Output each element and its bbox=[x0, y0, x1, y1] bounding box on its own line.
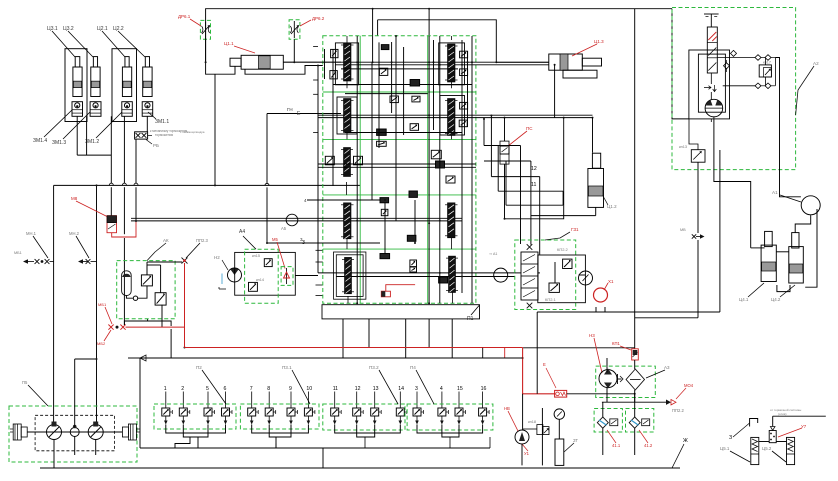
wire PS bottom bbox=[504, 164, 506, 219]
wire Ts1.1 bottom drain bbox=[245, 66, 323, 75]
hydraulic lock ZM1.3 bbox=[90, 102, 101, 117]
section frame row2L bbox=[337, 97, 357, 134]
svg-text:П3.1: П3.1 bbox=[282, 365, 292, 370]
wire jog y155 bbox=[77, 154, 111, 156]
svg-text:А3: А3 bbox=[664, 365, 670, 370]
black wire coupler frame bbox=[124, 321, 171, 326]
drain collector line bbox=[602, 401, 666, 403]
double arrow PP2.2 bbox=[666, 400, 671, 405]
wire N3 verticals bbox=[634, 360, 636, 369]
valve MOZ dark2 bbox=[377, 141, 387, 146]
wire drain into tank bbox=[634, 394, 636, 402]
svg-text:12: 12 bbox=[531, 166, 537, 172]
motor M1 bbox=[47, 425, 62, 440]
wire Ts1.1 left port bbox=[206, 38, 235, 74]
bottom line bbox=[40, 467, 680, 469]
section frame row2R bbox=[440, 96, 465, 136]
port ticks left edge bbox=[313, 46, 318, 48]
wire right end vertical bbox=[774, 58, 776, 86]
pilot valve 8 bbox=[268, 392, 270, 409]
valve spool 5L bbox=[345, 257, 352, 293]
filter unit 41.2 green box bbox=[626, 409, 654, 433]
element U7 bbox=[769, 431, 776, 443]
block KP2 green box bbox=[515, 240, 576, 310]
block AK green box bbox=[117, 261, 175, 319]
frame right vertical x698 bbox=[697, 162, 699, 233]
check ak bbox=[133, 296, 137, 300]
spool center extensions bbox=[346, 36, 348, 43]
svg-text:4: 4 bbox=[440, 386, 443, 392]
wire pilot 11 12 bbox=[505, 130, 564, 219]
port circle A4 bbox=[494, 268, 508, 282]
block KP2 outer rect bbox=[538, 255, 586, 303]
svg-text:ПП2.3: ПП2.3 bbox=[196, 238, 209, 243]
block N2 rect bbox=[235, 252, 296, 295]
work line row1b bbox=[335, 64, 548, 66]
wire x537 bbox=[536, 312, 538, 394]
link motors horizontal bbox=[75, 358, 97, 360]
drop to tank line bbox=[322, 448, 324, 468]
wire AK to coupler bbox=[147, 261, 182, 263]
relief valve d2 bbox=[381, 209, 388, 215]
svg-text:Ж: Ж bbox=[683, 438, 688, 444]
wire A1 loop bbox=[795, 215, 811, 233]
svg-text:6: 6 bbox=[224, 386, 227, 392]
svg-text:МО4: МО4 bbox=[684, 383, 694, 388]
outer frame A2 bbox=[689, 50, 730, 119]
red port X1 bbox=[594, 288, 608, 302]
drain pump M3 bbox=[70, 428, 79, 437]
svg-text:РБ: РБ bbox=[153, 143, 159, 148]
work line row4b bbox=[336, 276, 515, 278]
pilot valve 9 bbox=[290, 392, 292, 409]
wire drain Ts1.1 x267 bbox=[266, 114, 268, 184]
solenoid valve KE bbox=[107, 216, 117, 233]
green divider h4 bbox=[323, 248, 476, 250]
pilot valve 1 bbox=[165, 392, 167, 409]
wire 41.2 bbox=[634, 402, 636, 417]
wire second top bbox=[378, 20, 497, 63]
block vertical h bbox=[414, 200, 416, 243]
wire PS top bbox=[504, 118, 506, 142]
block vertical f bbox=[461, 40, 463, 293]
svg-text:Ц1.1: Ц1.1 bbox=[224, 41, 234, 46]
block vertical i bbox=[384, 200, 386, 255]
wire Ts4 rods bbox=[776, 251, 789, 253]
svg-text:ДР6.2: ДР6.2 bbox=[312, 16, 325, 21]
pilot valve 2 bbox=[182, 392, 184, 409]
svg-text:1: 1 bbox=[164, 386, 167, 392]
valve KP3 dark bbox=[410, 80, 420, 87]
wire frame group 1 bbox=[65, 49, 87, 122]
wire Ts5 bus bbox=[759, 441, 769, 443]
green divider h1 bbox=[323, 91, 476, 93]
relief valve c2 bbox=[412, 96, 420, 102]
wire N2 out bbox=[295, 275, 318, 277]
drop x372.6 bbox=[372, 9, 374, 62]
valve d3 dark bbox=[380, 254, 390, 259]
work line row3b bbox=[131, 220, 462, 222]
work line row1a bbox=[283, 61, 549, 63]
pilot valve 15 bbox=[458, 392, 460, 409]
red wire from PP2.3 bbox=[184, 263, 186, 348]
valve sq right of 3L bbox=[354, 156, 363, 165]
valve spool 2L bbox=[344, 99, 352, 133]
pilot valve 10 bbox=[307, 392, 309, 409]
block vertical d bbox=[403, 47, 405, 135]
valve spool 1L bbox=[344, 43, 352, 81]
wire gauge stem bbox=[558, 419, 560, 439]
check pair bottom bbox=[755, 83, 761, 89]
pump A2 circle bbox=[705, 99, 723, 117]
red wire MB2 to bus bbox=[126, 326, 185, 328]
wire pump drain to Ts4 bbox=[714, 119, 751, 248]
group P2 green box bbox=[154, 404, 236, 429]
wire hand pump bbox=[522, 394, 524, 430]
throttle DR6.2 bbox=[289, 20, 300, 40]
wire AK bottom drop bbox=[147, 319, 149, 321]
inner frame A2 bbox=[698, 54, 725, 112]
svg-text:2: 2 bbox=[181, 386, 184, 392]
svg-text:7: 7 bbox=[250, 386, 253, 392]
black drop x140 bbox=[139, 358, 141, 448]
wire lock3 down long bbox=[123, 116, 125, 183]
cylinder Ts1.1 horizontal bbox=[241, 55, 283, 69]
supply vertical x672 bbox=[672, 9, 689, 119]
motor M2 bbox=[88, 425, 103, 440]
red couplers MB2 bbox=[108, 325, 113, 330]
valve PS bbox=[500, 141, 509, 164]
drop x429 bbox=[428, 9, 430, 36]
manifold drop c bbox=[451, 319, 453, 358]
cylinder Ts5.1 bbox=[751, 437, 759, 464]
svg-text:КП1: КП1 bbox=[612, 341, 620, 346]
red bus drop2 bbox=[523, 348, 555, 394]
svg-text:У1: У1 bbox=[524, 451, 530, 456]
valve ak2 bbox=[155, 293, 166, 305]
svg-text:15: 15 bbox=[457, 386, 463, 392]
pump N2 circle bbox=[228, 268, 242, 282]
pilot valve 3 bbox=[416, 392, 418, 409]
work line row2.5a bbox=[318, 163, 476, 165]
wire pump right line bbox=[723, 85, 755, 87]
drain right vertical x634.7 bbox=[634, 9, 636, 349]
valve spool 3L bbox=[344, 148, 351, 177]
valve spool 5L frame bbox=[336, 255, 363, 297]
valve KP1 red bbox=[632, 349, 639, 360]
hydraulic lock ZM1.1 bbox=[142, 102, 153, 117]
valve sq mid a bbox=[431, 150, 441, 159]
svg-text:Ц5.2: Ц5.2 bbox=[762, 446, 772, 451]
relief valve left1 bbox=[331, 49, 338, 57]
green divider v1 bbox=[359, 36, 361, 304]
pilot valve 6 bbox=[225, 392, 227, 409]
wire A2 right drop to A1 bbox=[775, 58, 801, 197]
collector group2 bbox=[252, 425, 309, 434]
relief valve d5 bbox=[410, 267, 417, 272]
work line row1c bbox=[341, 68, 458, 70]
wire Ts1.3 feed bbox=[496, 61, 549, 63]
filter unit 41.1 green box bbox=[594, 409, 622, 433]
svg-text:ЗМ1.3: ЗМ1.3 bbox=[52, 140, 66, 146]
manifold drop a bbox=[342, 319, 344, 358]
coupler MN2 bbox=[86, 259, 91, 264]
svg-text:13: 13 bbox=[373, 386, 379, 392]
pilot valve 12 bbox=[356, 392, 358, 409]
valve sq right row2.5 bbox=[446, 176, 455, 183]
collector drop g1 bbox=[197, 437, 199, 448]
svg-text:9: 9 bbox=[289, 386, 292, 392]
relief valve left2 bbox=[330, 71, 337, 79]
wire lock1 down bbox=[76, 116, 78, 155]
svg-text:кп13: кп13 bbox=[679, 145, 687, 149]
svg-text:ЗТ: ЗТ bbox=[573, 438, 578, 443]
svg-text:ПС: ПС bbox=[526, 126, 533, 131]
svg-text:кп18: кп18 bbox=[528, 420, 536, 424]
block vertical l x324 bbox=[324, 49, 326, 79]
svg-text:3: 3 bbox=[302, 240, 305, 246]
port stubs P1 left bbox=[316, 249, 323, 251]
wire 41 bottoms bbox=[602, 440, 604, 455]
bracket symbol bbox=[750, 419, 758, 427]
wire stack to pump bbox=[710, 73, 712, 84]
wire frame to kp13 bbox=[689, 119, 698, 150]
valve sq c mid bbox=[390, 96, 398, 103]
collector group1 bbox=[166, 425, 226, 434]
cylinder Ts1.3 lower bbox=[563, 70, 597, 78]
wire A2 drain down bbox=[719, 150, 721, 312]
valve spool 2R bbox=[448, 99, 456, 136]
group P3.1 green box bbox=[240, 404, 319, 429]
wire motor feeds bbox=[74, 359, 76, 428]
mesh dots bbox=[483, 118, 485, 120]
valve sq mid b bbox=[436, 161, 445, 168]
collector group4 bbox=[417, 425, 483, 434]
valve sq left of 3L bbox=[325, 156, 334, 165]
relief valve r3 bbox=[460, 102, 468, 109]
filter 41.1 bbox=[597, 417, 608, 428]
block vertical m x372 bbox=[371, 62, 373, 200]
hand pump M4 bbox=[515, 430, 529, 444]
svg-text:МВ: МВ bbox=[680, 228, 686, 232]
coupler bottom X bbox=[527, 303, 533, 309]
check valve red M5 bbox=[281, 267, 293, 286]
block N3 green box bbox=[596, 366, 656, 397]
wire ak internals bbox=[126, 296, 133, 299]
svg-text:МБ1: МБ1 bbox=[98, 302, 107, 307]
svg-text:КП2.2: КП2.2 bbox=[557, 247, 569, 252]
svg-text:А2: А2 bbox=[813, 61, 819, 66]
block vertical j bbox=[428, 36, 430, 303]
stroke arrows A2 bbox=[704, 85, 716, 92]
check diamond b bbox=[724, 63, 730, 69]
gauge MN4 bbox=[579, 271, 593, 285]
svg-text:П4: П4 bbox=[410, 365, 416, 370]
brake right bbox=[128, 424, 136, 440]
wire lock4 stub bbox=[146, 116, 148, 132]
valve KP4 dark bbox=[407, 235, 416, 241]
wire x294 drop bbox=[293, 39, 295, 62]
coupler PP2.3 bbox=[182, 258, 188, 264]
work line row4a bbox=[318, 272, 515, 274]
valve kp14 bbox=[249, 282, 258, 291]
group P4 green box bbox=[407, 404, 493, 430]
leader red M8 bbox=[76, 201, 107, 217]
svg-text:МБ2: МБ2 bbox=[97, 341, 106, 346]
svg-text:Ц1.3: Ц1.3 bbox=[594, 39, 604, 44]
svg-text:МН.2: МН.2 bbox=[69, 231, 80, 236]
collector group3 bbox=[335, 425, 401, 434]
svg-text:МН.1: МН.1 bbox=[26, 231, 37, 236]
red wire KE loop bbox=[112, 221, 136, 237]
wire E port bbox=[267, 113, 341, 115]
pilot valve 5 bbox=[207, 392, 209, 409]
block vertical e bbox=[439, 36, 441, 303]
valve KP2.2 bbox=[563, 259, 572, 268]
pilot valve 11 bbox=[334, 392, 336, 409]
hydraulic lock ZM1.2 bbox=[122, 102, 133, 117]
relief valve c1 bbox=[379, 68, 387, 75]
svg-text:Н3: Н3 bbox=[589, 333, 595, 338]
tank under X1 bbox=[596, 307, 605, 312]
hydraulic lock ZM1.4 bbox=[72, 102, 83, 117]
green divider h2 bbox=[323, 138, 476, 140]
red bus drop 482 bbox=[482, 348, 484, 358]
svg-text:5: 5 bbox=[206, 386, 209, 392]
pilot mesh right of block bbox=[484, 145, 521, 147]
relief valve c3 bbox=[410, 124, 418, 131]
check diamond a bbox=[731, 50, 737, 56]
cylinder Ts1.3 bbox=[549, 54, 583, 70]
section frame row1L bbox=[335, 43, 358, 85]
valve spool 3R bbox=[448, 203, 456, 238]
black y394 line bbox=[567, 393, 635, 395]
svg-text:З: З bbox=[729, 435, 732, 441]
block vertical k x318 bbox=[317, 66, 319, 273]
manifold bottom box bbox=[322, 305, 480, 319]
frame bottom y312 bbox=[537, 311, 720, 313]
block vertical g bbox=[467, 51, 469, 127]
wire top left loop bbox=[206, 9, 672, 62]
work line row2a bbox=[318, 114, 593, 116]
svg-text:АК: АК bbox=[163, 238, 169, 243]
pilot valve 13 bbox=[374, 392, 376, 409]
valve KP2.1 bbox=[549, 283, 559, 292]
manifold drop b bbox=[405, 319, 407, 358]
svg-text:Ц4.2: Ц4.2 bbox=[771, 297, 781, 302]
wire motors down bbox=[53, 440, 55, 469]
wire KP2 internals bbox=[515, 272, 521, 274]
wire Ts1.1 drain to bus bbox=[214, 74, 216, 185]
manifold drop b3 bbox=[428, 319, 430, 348]
valve ak1 bbox=[141, 275, 152, 286]
work line row2b bbox=[318, 117, 593, 119]
wire lock3b down bbox=[110, 116, 112, 183]
svg-text:кп17: кп17 bbox=[763, 61, 771, 65]
group P3.2 green box bbox=[323, 404, 405, 430]
valve d1 dark bbox=[380, 198, 389, 203]
throttle DT1 bbox=[381, 45, 389, 50]
unit A2 green box bbox=[672, 8, 796, 170]
svg-text:ГЗ1: ГЗ1 bbox=[571, 227, 579, 232]
cylinder Ts3.1 bbox=[75, 57, 80, 67]
pilot valve 14 bbox=[399, 392, 401, 409]
gauge MN5 bbox=[554, 409, 564, 419]
svg-text:11: 11 bbox=[531, 182, 536, 188]
coupler RB to brakes bbox=[135, 132, 148, 139]
valve RP red bbox=[555, 390, 567, 397]
wire kp17 vertical bbox=[765, 58, 767, 65]
manifold drop b2 bbox=[368, 319, 370, 348]
svg-text:кп15: кп15 bbox=[252, 254, 260, 258]
stub line y84 bbox=[333, 84, 472, 86]
work line row2.5b bbox=[318, 166, 476, 168]
svg-text:М5: М5 bbox=[272, 237, 278, 242]
red bus drop1 bbox=[504, 348, 506, 359]
svg-text:КП2.1: КП2.1 bbox=[545, 297, 557, 302]
red leader M5 bbox=[277, 242, 285, 269]
relief valve d4 bbox=[410, 260, 417, 267]
red bus main bbox=[185, 347, 523, 349]
svg-text:12: 12 bbox=[355, 386, 361, 392]
section frame row1R bbox=[439, 43, 465, 85]
block vertical o x396 bbox=[395, 36, 397, 221]
svg-text:А4: А4 bbox=[239, 229, 245, 235]
control valve stack A2 bbox=[707, 27, 717, 73]
block vertical b bbox=[356, 36, 358, 303]
svg-text:41.1: 41.1 bbox=[612, 443, 621, 448]
inter-row link 1 bbox=[345, 93, 428, 95]
wire brake line bbox=[773, 415, 826, 417]
bus A horizontal y185.5 bbox=[54, 184, 360, 186]
svg-text:Н2: Н2 bbox=[214, 255, 220, 260]
brake left bbox=[13, 424, 21, 440]
wire x554 pilot bbox=[554, 65, 556, 118]
svg-text:ЗМ1.2: ЗМ1.2 bbox=[85, 139, 99, 145]
wire lock2 down bbox=[86, 116, 88, 155]
svg-text:МБ1: МБ1 bbox=[14, 251, 22, 255]
pump N2 drain cyan bbox=[221, 274, 223, 285]
block vertical n x379 bbox=[378, 42, 380, 148]
port A1 circle bbox=[801, 196, 820, 215]
cylinder Ts4.2 bbox=[792, 233, 799, 248]
pilot valve 4 bbox=[441, 392, 443, 409]
svg-text:П3.2: П3.2 bbox=[369, 365, 379, 370]
motor shaft line bbox=[27, 431, 122, 433]
block vertical a bbox=[332, 49, 334, 186]
svg-text:торможения: торможения bbox=[155, 133, 173, 137]
valve MOZ dark1 bbox=[377, 129, 387, 135]
motor group dashed box bbox=[35, 415, 114, 451]
valve kp15 bbox=[264, 259, 272, 267]
svg-text:А5: А5 bbox=[281, 226, 287, 231]
svg-text:ПП2.2: ПП2.2 bbox=[672, 408, 685, 413]
black line y347.8 right bbox=[523, 347, 635, 349]
work line row3a bbox=[131, 217, 462, 219]
manifold P1 green box bbox=[323, 36, 476, 304]
svg-text:41.2: 41.2 bbox=[644, 443, 653, 448]
port circle A5 bbox=[286, 214, 298, 226]
svg-text:Ц1.2: Ц1.2 bbox=[607, 204, 617, 209]
wire Ts4 bottom bbox=[777, 285, 790, 292]
black bus drain bbox=[140, 357, 523, 359]
filter 41.2 bbox=[629, 417, 640, 428]
valve spool 4L bbox=[344, 203, 352, 239]
junction arrow bbox=[140, 355, 146, 361]
svg-text:11: 11 bbox=[333, 386, 338, 392]
svg-text:кп14: кп14 bbox=[256, 278, 264, 282]
cylinder Ts1.2 bbox=[592, 153, 600, 168]
